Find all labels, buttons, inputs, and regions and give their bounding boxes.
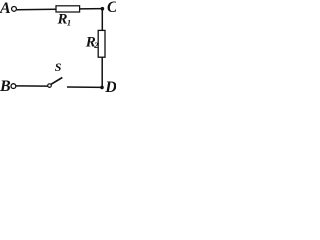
svg-text:R: R bbox=[57, 12, 68, 28]
switch S lever bbox=[51, 78, 62, 85]
svg-text:D: D bbox=[104, 79, 116, 96]
wire C to R2 bbox=[101, 9, 103, 31]
wire R2 to D bbox=[101, 57, 103, 87]
node D junction dot bbox=[100, 86, 104, 90]
wire B to switch bbox=[16, 85, 48, 87]
terminal A bbox=[12, 6, 17, 11]
svg-text:A: A bbox=[0, 0, 11, 17]
terminal B bbox=[11, 84, 16, 89]
wire R1 to C bbox=[80, 8, 103, 10]
svg-text:B: B bbox=[0, 78, 11, 95]
wire A to R1 bbox=[17, 8, 56, 11]
svg-text:C: C bbox=[107, 0, 116, 16]
svg-text:1: 1 bbox=[67, 17, 71, 27]
switch S pivot bbox=[48, 84, 52, 88]
svg-text:S: S bbox=[55, 60, 62, 74]
wire switch to D bbox=[67, 86, 102, 88]
svg-text:2: 2 bbox=[93, 41, 98, 50]
resistor R2 bbox=[98, 30, 105, 57]
resistor R1 bbox=[56, 6, 80, 12]
node C junction dot bbox=[101, 7, 105, 11]
